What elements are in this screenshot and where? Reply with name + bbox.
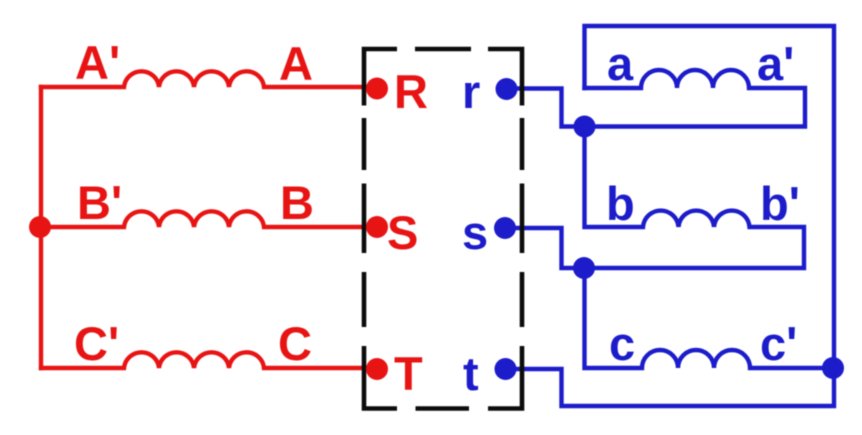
svg-text:s: s [462, 206, 488, 259]
svg-text:a: a [607, 37, 634, 90]
svg-text:a': a' [757, 37, 794, 90]
svg-text:A': A' [75, 36, 120, 89]
svg-text:T: T [394, 347, 423, 400]
svg-text:C: C [278, 317, 312, 370]
svg-text:A: A [279, 37, 313, 90]
svg-text:C': C' [74, 317, 119, 370]
svg-text:R: R [394, 65, 428, 118]
svg-text:c: c [609, 317, 635, 370]
svg-text:c': c' [760, 317, 797, 370]
svg-text:S: S [387, 206, 418, 259]
svg-text:B': B' [77, 176, 122, 229]
svg-text:B: B [280, 176, 314, 229]
svg-text:b': b' [760, 177, 800, 230]
svg-text:t: t [463, 347, 479, 400]
svg-text:b: b [606, 177, 635, 230]
svg-text:r: r [462, 65, 480, 118]
